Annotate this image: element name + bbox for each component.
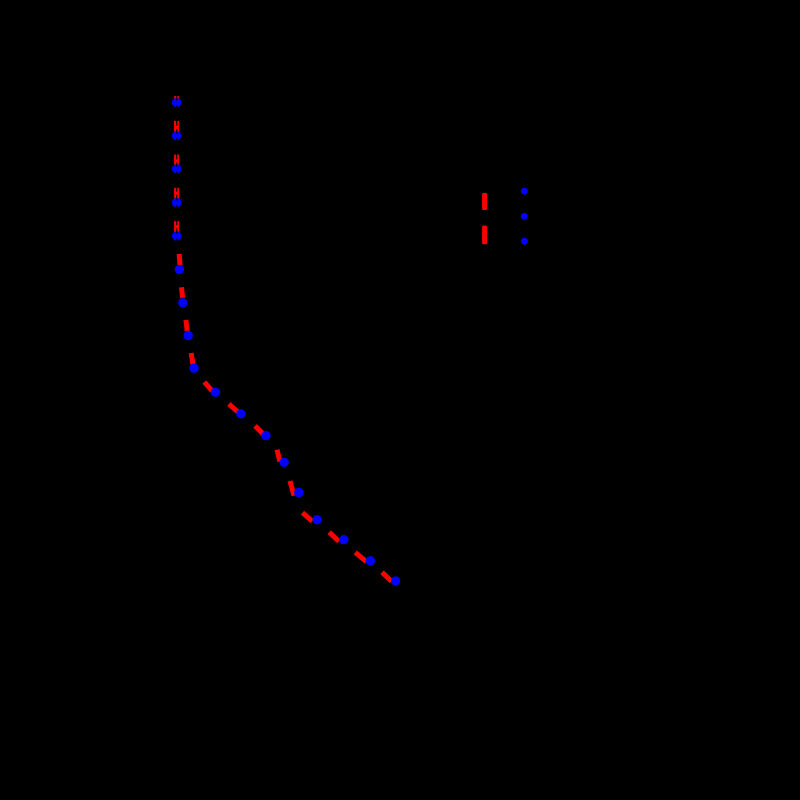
legend blue point sample 3 [521,238,528,245]
blue data point 13 [280,458,289,467]
red dash segment 17 of model curve [382,572,391,581]
blue data point 17 [366,556,375,565]
black overdrawn line slit on red dash 1 [176,121,178,126]
red dash segment 2 of model curve [174,155,179,166]
red dash segment 1 of model curve [174,121,179,132]
red dash segment 9 of model curve [204,382,212,391]
blue data point 7 [178,298,187,307]
black overdrawn line slit on red dash 3 [176,188,178,192]
black notch on data point 1 [176,98,177,101]
red dash segment 12 of model curve [277,450,280,462]
black overdrawn line slit on red dash 4 [176,221,178,225]
red dash segment 0 of model curve [174,96,179,99]
red dash segment 10 of model curve [229,404,238,412]
red dash segment 15 of model curve [329,532,339,541]
black overdrawn line slit on red dash 2 [176,155,178,160]
red dash segment 3 of model curve [174,188,179,199]
legend red dashed line sample, dash 2 [482,226,487,245]
blue data point 6 [175,265,184,274]
blue data point 14 [294,488,303,497]
blue data point 12 [261,431,270,440]
black overdrawn line slit on red dash 0 [176,96,178,99]
blue data point 8 [184,331,193,340]
red dash segment 7 of model curve [186,320,187,331]
black notch on data point 3 [176,164,177,167]
legend blue point sample 1 [521,188,528,195]
blue data point 18 [391,576,400,585]
black notch on data point 4 [176,198,177,201]
blue data point 5 [172,231,181,240]
blue data point 15 [313,515,322,524]
blue data point 4 [172,198,181,207]
red dash segment 5 of model curve [177,254,183,265]
black notch on data point 2 [176,131,177,134]
red dash segment 8 of model curve [191,353,193,364]
blue data point 1 [172,98,181,107]
blue data point 3 [172,164,181,173]
legend red dashed line sample, dash 1 [482,193,487,210]
red dash segment 13 of model curve [290,481,294,496]
red dash segment 6 of model curve [182,287,183,298]
red dash segment 16 of model curve [355,552,366,561]
legend blue point sample 2 [521,213,528,220]
red dash segment 11 of model curve [255,426,263,434]
blue data point 2 [172,131,181,140]
blue data point 10 [211,388,220,397]
blue data point 11 [236,409,245,418]
red dash segment 14 of model curve [303,513,313,522]
black notch on data point 5 [176,231,177,234]
blue data point 9 [189,364,198,373]
red dash segment 4 of model curve [174,221,179,232]
blue data point 16 [339,535,348,544]
